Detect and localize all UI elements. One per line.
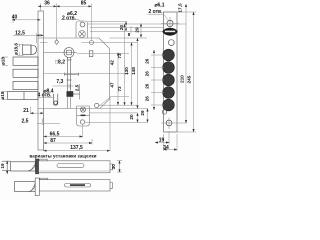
svg-text:42: 42 — [110, 60, 115, 66]
svg-text:26: 26 — [145, 71, 150, 77]
variant 1 head — [11, 162, 36, 171]
chamfer leader — [99, 97, 111, 107]
right dims — [177, 11, 196, 13]
svg-text:148: 148 — [131, 67, 136, 75]
svg-text:30: 30 — [111, 164, 116, 170]
svg-text:29: 29 — [135, 27, 140, 33]
svg-text:17,5: 17,5 — [178, 3, 183, 13]
bolt 4 — [8, 92, 39, 100]
svg-text:210: 210 — [180, 75, 185, 83]
top hole crosshair — [167, 20, 173, 26]
svg-text:⌀18: ⌀18 — [0, 91, 5, 99]
svg-text:34: 34 — [163, 145, 169, 151]
bottom crosshair hole — [166, 120, 172, 126]
dim 30 latch1 — [119, 161, 121, 173]
faceplate bar (side view) — [38, 11, 44, 150]
26-chain — [153, 50, 155, 110]
variant 1 plate bar (dark) — [36, 159, 39, 174]
escutcheon plate below case — [77, 106, 90, 126]
bolt 1 — [13, 57, 38, 65]
right side extension horizontals — [88, 23, 187, 25]
dim 7,3 — [53, 85, 74, 87]
svg-text:26: 26 — [145, 96, 150, 102]
svg-text:20: 20 — [119, 25, 124, 31]
screw X top — [79, 31, 86, 38]
svg-text:8: 8 — [128, 32, 131, 37]
svg-text:36: 36 — [44, 1, 50, 7]
dim 40 — [12, 19, 41, 21]
svg-text:137,5: 137,5 — [70, 145, 83, 151]
small hole — [168, 40, 174, 46]
dim 36 / 85 — [38, 5, 57, 7]
svg-text:26: 26 — [145, 58, 150, 64]
svg-text:⌀18,6: ⌀18,6 — [14, 43, 19, 55]
variant 1 : dim 19 — [6, 161, 8, 174]
svg-text:85: 85 — [81, 1, 87, 7]
long extension verticals — [43, 109, 45, 152]
variant 2 head — [15, 182, 36, 192]
hole 6,2 — [80, 22, 85, 27]
svg-text:47: 47 — [110, 82, 115, 88]
variant 2 plate bar (open) — [35, 178, 39, 196]
leader 6,1 — [148, 13, 164, 15]
dim 66,5 / 87 / 137,5 — [44, 136, 83, 138]
variant 1 body — [39, 161, 110, 173]
stem — [67, 58, 69, 92]
latch dim ticks — [18, 43, 24, 45]
bolt 2 — [13, 69, 38, 77]
svg-text:2 отв.: 2 отв. — [62, 15, 77, 21]
small hole lower — [162, 110, 166, 114]
bolt 3 — [13, 81, 38, 89]
svg-text:26: 26 — [145, 83, 150, 89]
svg-text:⌀18: ⌀18 — [1, 57, 6, 65]
cam (dark) — [67, 92, 73, 97]
5 bolt holes dark — [163, 49, 175, 61]
slot hole bottom-left — [53, 94, 57, 105]
svg-text:7,3: 7,3 — [56, 79, 63, 85]
leader 6,2 — [61, 18, 79, 20]
svg-text:2,5: 2,5 — [75, 84, 80, 91]
latch (main view) — [23, 45, 32, 55]
lock case body — [38, 38, 109, 109]
svg-text:73: 73 — [117, 53, 122, 59]
bottom-left dims — [29, 107, 31, 115]
top bracket — [76, 21, 88, 38]
variant 2 body — [39, 180, 110, 191]
svg-text:12,5: 12,5 — [15, 30, 25, 36]
mounting hole markers — [55, 40, 59, 45]
svg-text:66,5: 66,5 — [50, 131, 60, 137]
svg-text:20: 20 — [129, 114, 134, 120]
d18 dim ticks bolt4 — [2, 91, 8, 93]
label underline 4 otv — [38, 97, 55, 99]
svg-text:245: 245 — [187, 75, 192, 83]
svg-text:87: 87 — [50, 138, 56, 144]
dim 12,5 — [13, 34, 37, 36]
vertical dim chains right of case — [125, 22, 127, 32]
svg-text:21: 21 — [23, 108, 29, 114]
svg-text:□8,2: □8,2 — [55, 60, 65, 66]
svg-text:73: 73 — [117, 86, 122, 92]
svg-text:19: 19 — [0, 163, 5, 169]
bottom dims of plate — [163, 134, 165, 151]
logo dark banner — [162, 28, 177, 36]
svg-text:4 отв.: 4 отв. — [37, 93, 52, 99]
top dims extension verticals — [12, 17, 14, 24]
d18 dim ticks bolt1 — [2, 56, 8, 58]
svg-text:29: 29 — [140, 110, 145, 116]
svg-text:⌀6,1: ⌀6,1 — [155, 3, 165, 9]
svg-text:2 отв.: 2 отв. — [148, 9, 163, 15]
svg-text:2,5: 2,5 — [22, 118, 29, 124]
knob / follower — [64, 48, 74, 58]
svg-text:варианты установки защелки: варианты установки защелки — [30, 154, 97, 159]
svg-text:130: 130 — [124, 67, 129, 75]
svg-text:19: 19 — [159, 138, 165, 144]
plate — [164, 12, 178, 132]
svg-text:40: 40 — [12, 15, 18, 21]
